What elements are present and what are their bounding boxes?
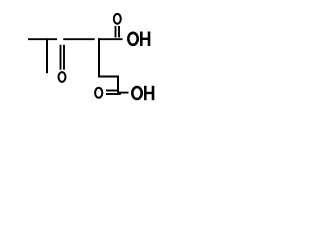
wire bond g-h (CH2 down to bottom carboxyl carbon) <box>117 77 119 93</box>
wire double bond bottom carboxyl C=O <box>106 91 121 95</box>
wire bond b-c (branch carbon down to methyl) <box>46 38 48 73</box>
node OH bottom label <box>132 86 153 100</box>
node O bottom carboxyl label <box>95 88 102 98</box>
wire bond e to top carboxyl carbon <box>98 38 123 40</box>
node O ketone label <box>59 72 66 82</box>
wire bond to bottom hydroxyl <box>118 92 129 94</box>
wire bond a-b (left methyl to branch carbon) <box>28 38 57 40</box>
wire double bond ketone C=O <box>61 45 65 70</box>
node OH top label <box>128 32 149 47</box>
wire bond e-f (CH down to CH2) <box>98 38 100 77</box>
node O top carboxyl label <box>114 14 121 24</box>
wire bond f-g (CH2 to CH2) <box>98 76 119 78</box>
wire bond d-e (ketone carbon to CH) <box>63 38 94 40</box>
wire double bond top carboxyl C=O <box>116 26 120 38</box>
